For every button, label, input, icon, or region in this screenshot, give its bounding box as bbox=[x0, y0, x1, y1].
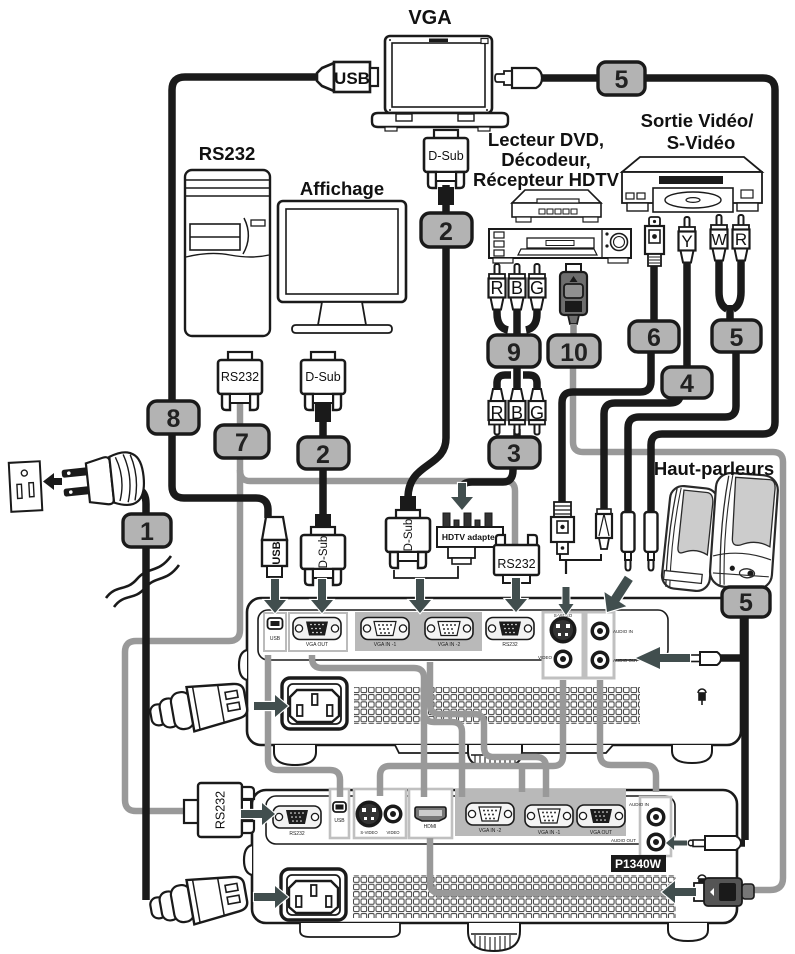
svg-text:VGA OUT: VGA OUT bbox=[590, 830, 612, 836]
S-Video plug above proj1 bbox=[551, 502, 574, 554]
svg-text:R: R bbox=[491, 403, 504, 423]
projector 1 RS232 port bbox=[486, 618, 534, 640]
svg-text:HDTV adapter: HDTV adapter bbox=[442, 532, 499, 542]
svg-text:VGA OUT: VGA OUT bbox=[306, 642, 328, 648]
svg-text:VGA IN -1: VGA IN -1 bbox=[538, 830, 561, 836]
gray loop cable VGA OUT proj1 to proj2 HDMI bbox=[312, 655, 424, 797]
svg-text:1: 1 bbox=[140, 518, 154, 546]
projector 1 VGA OUT box bbox=[289, 613, 347, 651]
svg-text:VGA IN -1: VGA IN -1 bbox=[374, 642, 397, 648]
svg-text:AUDIO IN: AUDIO IN bbox=[613, 629, 633, 634]
arrow into proj1 VGA OUT bbox=[311, 579, 333, 613]
svg-text:7: 7 bbox=[235, 429, 249, 457]
arrow into proj2 AUDIO OUT (left) bbox=[666, 836, 687, 850]
svg-text:6: 6 bbox=[647, 324, 661, 352]
video player (Sortie Video) bbox=[622, 157, 762, 212]
wall arrow bbox=[43, 473, 62, 490]
svg-text:5: 5 bbox=[615, 66, 629, 94]
wall outlet bbox=[9, 461, 43, 512]
upper G plug bbox=[529, 264, 546, 310]
svg-text:S-Vidéo: S-Vidéo bbox=[667, 132, 736, 153]
diagonal arrow toward proj1 audio in bbox=[596, 571, 640, 619]
black cable from callout 5 (W/R) to audio-in plug bbox=[628, 351, 736, 513]
svg-text:2: 2 bbox=[316, 441, 330, 469]
power plug bbox=[60, 451, 146, 512]
svg-text:9: 9 bbox=[507, 339, 521, 367]
svg-text:G: G bbox=[530, 278, 544, 298]
S-Video cable connector below video device bbox=[645, 217, 664, 266]
arrow at proj2 rear (left) bbox=[662, 881, 696, 903]
projector 2 HDMI box bbox=[409, 789, 452, 838]
svg-text:Lecteur DVD,: Lecteur DVD, bbox=[488, 129, 604, 150]
arrow into proj1 VGA IN-1 bbox=[409, 579, 431, 613]
arrow into proj1 S-VIDEO bbox=[559, 587, 574, 615]
black cable laptop D-Sub chain down to VGA IN-1 connector bbox=[442, 185, 450, 216]
projector 2 bottom lip bbox=[300, 923, 400, 937]
projector 1 body bbox=[247, 598, 741, 745]
callout 8 bbox=[148, 401, 199, 434]
callout 5b bbox=[712, 320, 761, 352]
svg-text:Y: Y bbox=[681, 232, 692, 251]
projector 1 AUDIO highlight box bbox=[586, 612, 614, 678]
projector 2 body bbox=[252, 790, 737, 923]
joint on laptop VGA cable bbox=[438, 187, 454, 205]
projector 2 P1340W label bbox=[611, 855, 666, 872]
projector 2 S-VIDEO / VIDEO box bbox=[354, 789, 406, 838]
callout 2a bbox=[421, 213, 472, 247]
black cable W+R merge into callout 5 bbox=[719, 258, 727, 309]
black power cable: wall plug down through callout 1 to both IEC plugs bbox=[138, 489, 146, 900]
video RCA plug above proj1 bbox=[596, 509, 612, 549]
speakers bbox=[661, 472, 779, 592]
projector 2 RS232 port bbox=[273, 806, 321, 828]
gray RS232 cable from tower connector: down, branch right to proj1, down-left to proj2 bbox=[125, 400, 240, 811]
HDMI plug bbox=[560, 264, 587, 324]
gray loop cable VIDEO proj1 to proj2 video bbox=[380, 680, 563, 796]
lower R plug bbox=[489, 389, 506, 435]
lower B plug bbox=[509, 389, 526, 435]
svg-text:USB: USB bbox=[270, 636, 281, 642]
rear HDMI/USB plug bottom right bbox=[694, 878, 754, 906]
svg-text:8: 8 bbox=[167, 405, 181, 433]
black cable S-Video connector to callout 6 bbox=[650, 265, 658, 324]
projector 1 VGA IN-1 port bbox=[361, 618, 409, 640]
svg-text:RS232: RS232 bbox=[502, 642, 518, 648]
black cable callout 4 to video RCA plug bbox=[604, 395, 680, 509]
black cable from callout 3 to HDTV adapter arrow bbox=[462, 467, 513, 489]
svg-text:Décodeur,: Décodeur, bbox=[501, 149, 590, 170]
black audio cable laptop to callout 5 and right side down bbox=[540, 74, 600, 82]
svg-text:AUDIO IN: AUDIO IN bbox=[629, 802, 649, 807]
svg-text:D-Sub: D-Sub bbox=[305, 370, 340, 384]
svg-text:3: 3 bbox=[507, 440, 521, 468]
svg-text:Récepteur HDTV: Récepteur HDTV bbox=[473, 169, 620, 190]
USB connector above proj1 bbox=[262, 517, 287, 577]
projector 1 USB port box bbox=[264, 613, 286, 651]
D-Sub connector below monitor bbox=[301, 352, 345, 410]
gray HDMI stub to callout 10 bbox=[570, 324, 577, 338]
projector 2 vent grille bbox=[353, 875, 676, 918]
gray loop cable light straight bbox=[424, 712, 462, 797]
svg-text:HDMI: HDMI bbox=[424, 824, 437, 830]
bracket joining D-Sub and HDTV adapter bbox=[394, 566, 458, 578]
black USB cable from laptop to callout 8 and USB connector bbox=[172, 77, 319, 518]
svg-text:RS232: RS232 bbox=[199, 143, 256, 164]
svg-text:Haut-parleurs: Haut-parleurs bbox=[654, 458, 774, 479]
projector 2 connector panel outline bbox=[266, 796, 675, 844]
svg-text:G: G bbox=[530, 403, 544, 423]
upper R plug bbox=[489, 264, 506, 310]
audio plug into proj1 AUDIO OUT bbox=[684, 652, 721, 665]
projector 1 bottom feet bbox=[274, 745, 316, 765]
svg-text:USB: USB bbox=[334, 818, 345, 824]
black cable monitor D-Sub chain bbox=[319, 398, 327, 440]
vertical D-Sub connector above proj1 VGA IN-1 bbox=[386, 510, 430, 568]
svg-text:B: B bbox=[511, 403, 523, 423]
projector 2 VGA OUT port bbox=[577, 805, 625, 827]
projector 2 USB box bbox=[330, 789, 349, 838]
black speaker cable to callout 5c and down to audio plugs bbox=[740, 580, 748, 590]
callout 9 bbox=[488, 335, 540, 367]
svg-text:AUDIO OUT: AUDIO OUT bbox=[611, 838, 636, 843]
svg-text:USB: USB bbox=[334, 69, 370, 88]
W connector below video device bbox=[711, 215, 728, 261]
projector 2 AUDIO box bbox=[640, 797, 671, 856]
svg-text:W: W bbox=[711, 232, 727, 249]
svg-text:AUDIO OUT: AUDIO OUT bbox=[613, 658, 638, 663]
audio plug into proj2 AUDIO OUT bbox=[688, 836, 741, 850]
gray loop leg into proj2 VGA area bbox=[519, 766, 526, 792]
arrow into proj2 power inlet bbox=[254, 886, 288, 908]
arrow into proj1 USB bbox=[264, 579, 286, 613]
svg-text:D-Sub: D-Sub bbox=[428, 149, 463, 163]
audio jack plug at laptop bbox=[495, 68, 542, 88]
audio mini jack plug 1 above proj1 bbox=[622, 512, 635, 571]
laptop bbox=[372, 36, 508, 131]
gray loop cable USB proj1 to proj2 bbox=[268, 655, 340, 797]
projector 2 VGA gray highlight bbox=[455, 789, 626, 836]
IEC plug 2 bbox=[147, 870, 249, 931]
svg-text:R: R bbox=[735, 230, 747, 249]
svg-text:VGA: VGA bbox=[408, 7, 451, 29]
svg-text:5: 5 bbox=[730, 324, 744, 352]
svg-text:USB: USB bbox=[271, 541, 283, 564]
projector 2 feet bbox=[668, 923, 708, 941]
svg-text:RS232: RS232 bbox=[214, 791, 228, 829]
callout 10 bbox=[548, 335, 600, 367]
arrow into proj1 RS232 bbox=[505, 578, 527, 612]
svg-text:S-VIDEO: S-VIDEO bbox=[360, 830, 378, 835]
svg-text:P1340W: P1340W bbox=[615, 857, 662, 871]
svg-text:VGA IN -2: VGA IN -2 bbox=[479, 828, 502, 834]
gray HDMI cable from callout 10 around right side to rear plug bbox=[573, 365, 783, 890]
black cable R/B/G upper merge into callout 9 bbox=[497, 308, 508, 330]
svg-text:RS232: RS232 bbox=[289, 831, 305, 837]
RS232 connector below tower bbox=[218, 352, 262, 410]
gray HDMI link inside projector 2 bbox=[430, 838, 700, 893]
HDTV adapter bbox=[437, 513, 503, 564]
black cable callout 6 to S-Video plug bbox=[562, 349, 651, 504]
D-Sub connector below laptop bbox=[424, 130, 468, 188]
bracket under s-video and rca plugs bbox=[560, 554, 601, 560]
black cable split below 9 to lower R/B/G bbox=[497, 375, 511, 391]
svg-text:4: 4 bbox=[680, 370, 694, 398]
RS232 connector left of proj2 (rotated) bbox=[184, 783, 254, 837]
callout 6 bbox=[629, 321, 679, 352]
svg-text:VGA IN -2: VGA IN -2 bbox=[438, 642, 461, 648]
projector 1 S-VIDEO / VIDEO highlight box bbox=[543, 612, 583, 678]
gray loop cable AUDIO proj1 to proj2 bbox=[600, 680, 656, 792]
AV receiver bbox=[489, 229, 631, 263]
arrow into HDTV adapter bbox=[451, 483, 473, 510]
projector 2 kensington lock bbox=[698, 875, 706, 890]
callout 5c bbox=[722, 587, 770, 617]
IEC plug 1 bbox=[147, 677, 249, 738]
Y connector below video device bbox=[679, 217, 696, 263]
svg-text:10: 10 bbox=[560, 339, 588, 367]
svg-text:R: R bbox=[491, 278, 504, 298]
computer tower bbox=[185, 170, 270, 336]
upper B plug bbox=[509, 264, 526, 310]
svg-text:Sortie Vidéo/: Sortie Vidéo/ bbox=[641, 110, 754, 131]
squiggle on power cable bbox=[106, 556, 171, 598]
svg-text:VIDEO: VIDEO bbox=[386, 830, 400, 835]
svg-text:2: 2 bbox=[439, 218, 453, 246]
callout 5a bbox=[598, 62, 645, 95]
projector 2 VGA IN-1 port bbox=[525, 805, 573, 827]
svg-text:D-Sub: D-Sub bbox=[403, 519, 415, 552]
projector 1 left ear bbox=[239, 650, 247, 680]
lower G plug bbox=[529, 389, 546, 435]
monitor (Affichage) bbox=[278, 201, 406, 333]
black cable Y connector to callout 4 bbox=[683, 260, 691, 370]
arrow into proj1 AUDIO OUT (left) bbox=[636, 647, 690, 669]
callout 4 bbox=[662, 367, 712, 398]
svg-text:B: B bbox=[511, 278, 523, 298]
USB plug at laptop bbox=[317, 62, 378, 92]
projector 1 VGA IN highlight box bbox=[355, 612, 482, 651]
slim DVD player bbox=[512, 190, 601, 222]
svg-text:RS232: RS232 bbox=[497, 557, 535, 571]
projector 1 power inlet bbox=[282, 678, 347, 729]
joint above VGA IN-1 D-Sub bbox=[400, 496, 416, 512]
R connector below video device bbox=[733, 215, 750, 261]
svg-text:VIDEO: VIDEO bbox=[538, 655, 553, 660]
svg-text:D-Sub: D-Sub bbox=[318, 536, 330, 569]
svg-text:5: 5 bbox=[739, 589, 753, 617]
projector 2 left ear bbox=[244, 845, 252, 875]
svg-text:RS232: RS232 bbox=[221, 370, 259, 384]
projector 1 vent grille bbox=[354, 687, 640, 724]
projector 1 VGA IN-2 port bbox=[425, 618, 473, 640]
callout 7 bbox=[215, 425, 269, 458]
callout 1 bbox=[123, 514, 171, 547]
projector 1 kensington lock bbox=[698, 689, 706, 705]
projector 2 VGA IN-2 port bbox=[466, 803, 514, 825]
projector 2 power inlet bbox=[281, 869, 346, 920]
joint on monitor VGA cable bbox=[315, 404, 331, 422]
callout 3 bbox=[489, 437, 540, 468]
arrow into proj1 power inlet bbox=[254, 695, 288, 717]
RS232 connector above proj1 bbox=[494, 535, 539, 583]
arrow into proj2 RS232 (right) bbox=[241, 803, 275, 825]
vertical D-Sub connector above proj1 VGA OUT bbox=[301, 527, 345, 585]
gray loop cable VGA IN-2 proj1 to proj2 VGA IN-1 bbox=[430, 662, 546, 797]
callout 2b bbox=[298, 437, 349, 469]
audio mini jack plug 2 above proj1 bbox=[645, 512, 658, 571]
svg-text:Affichage: Affichage bbox=[300, 178, 384, 199]
projector 1 connector panel outline bbox=[258, 610, 668, 660]
joint above 2nd monitor D-Sub bbox=[315, 514, 331, 530]
